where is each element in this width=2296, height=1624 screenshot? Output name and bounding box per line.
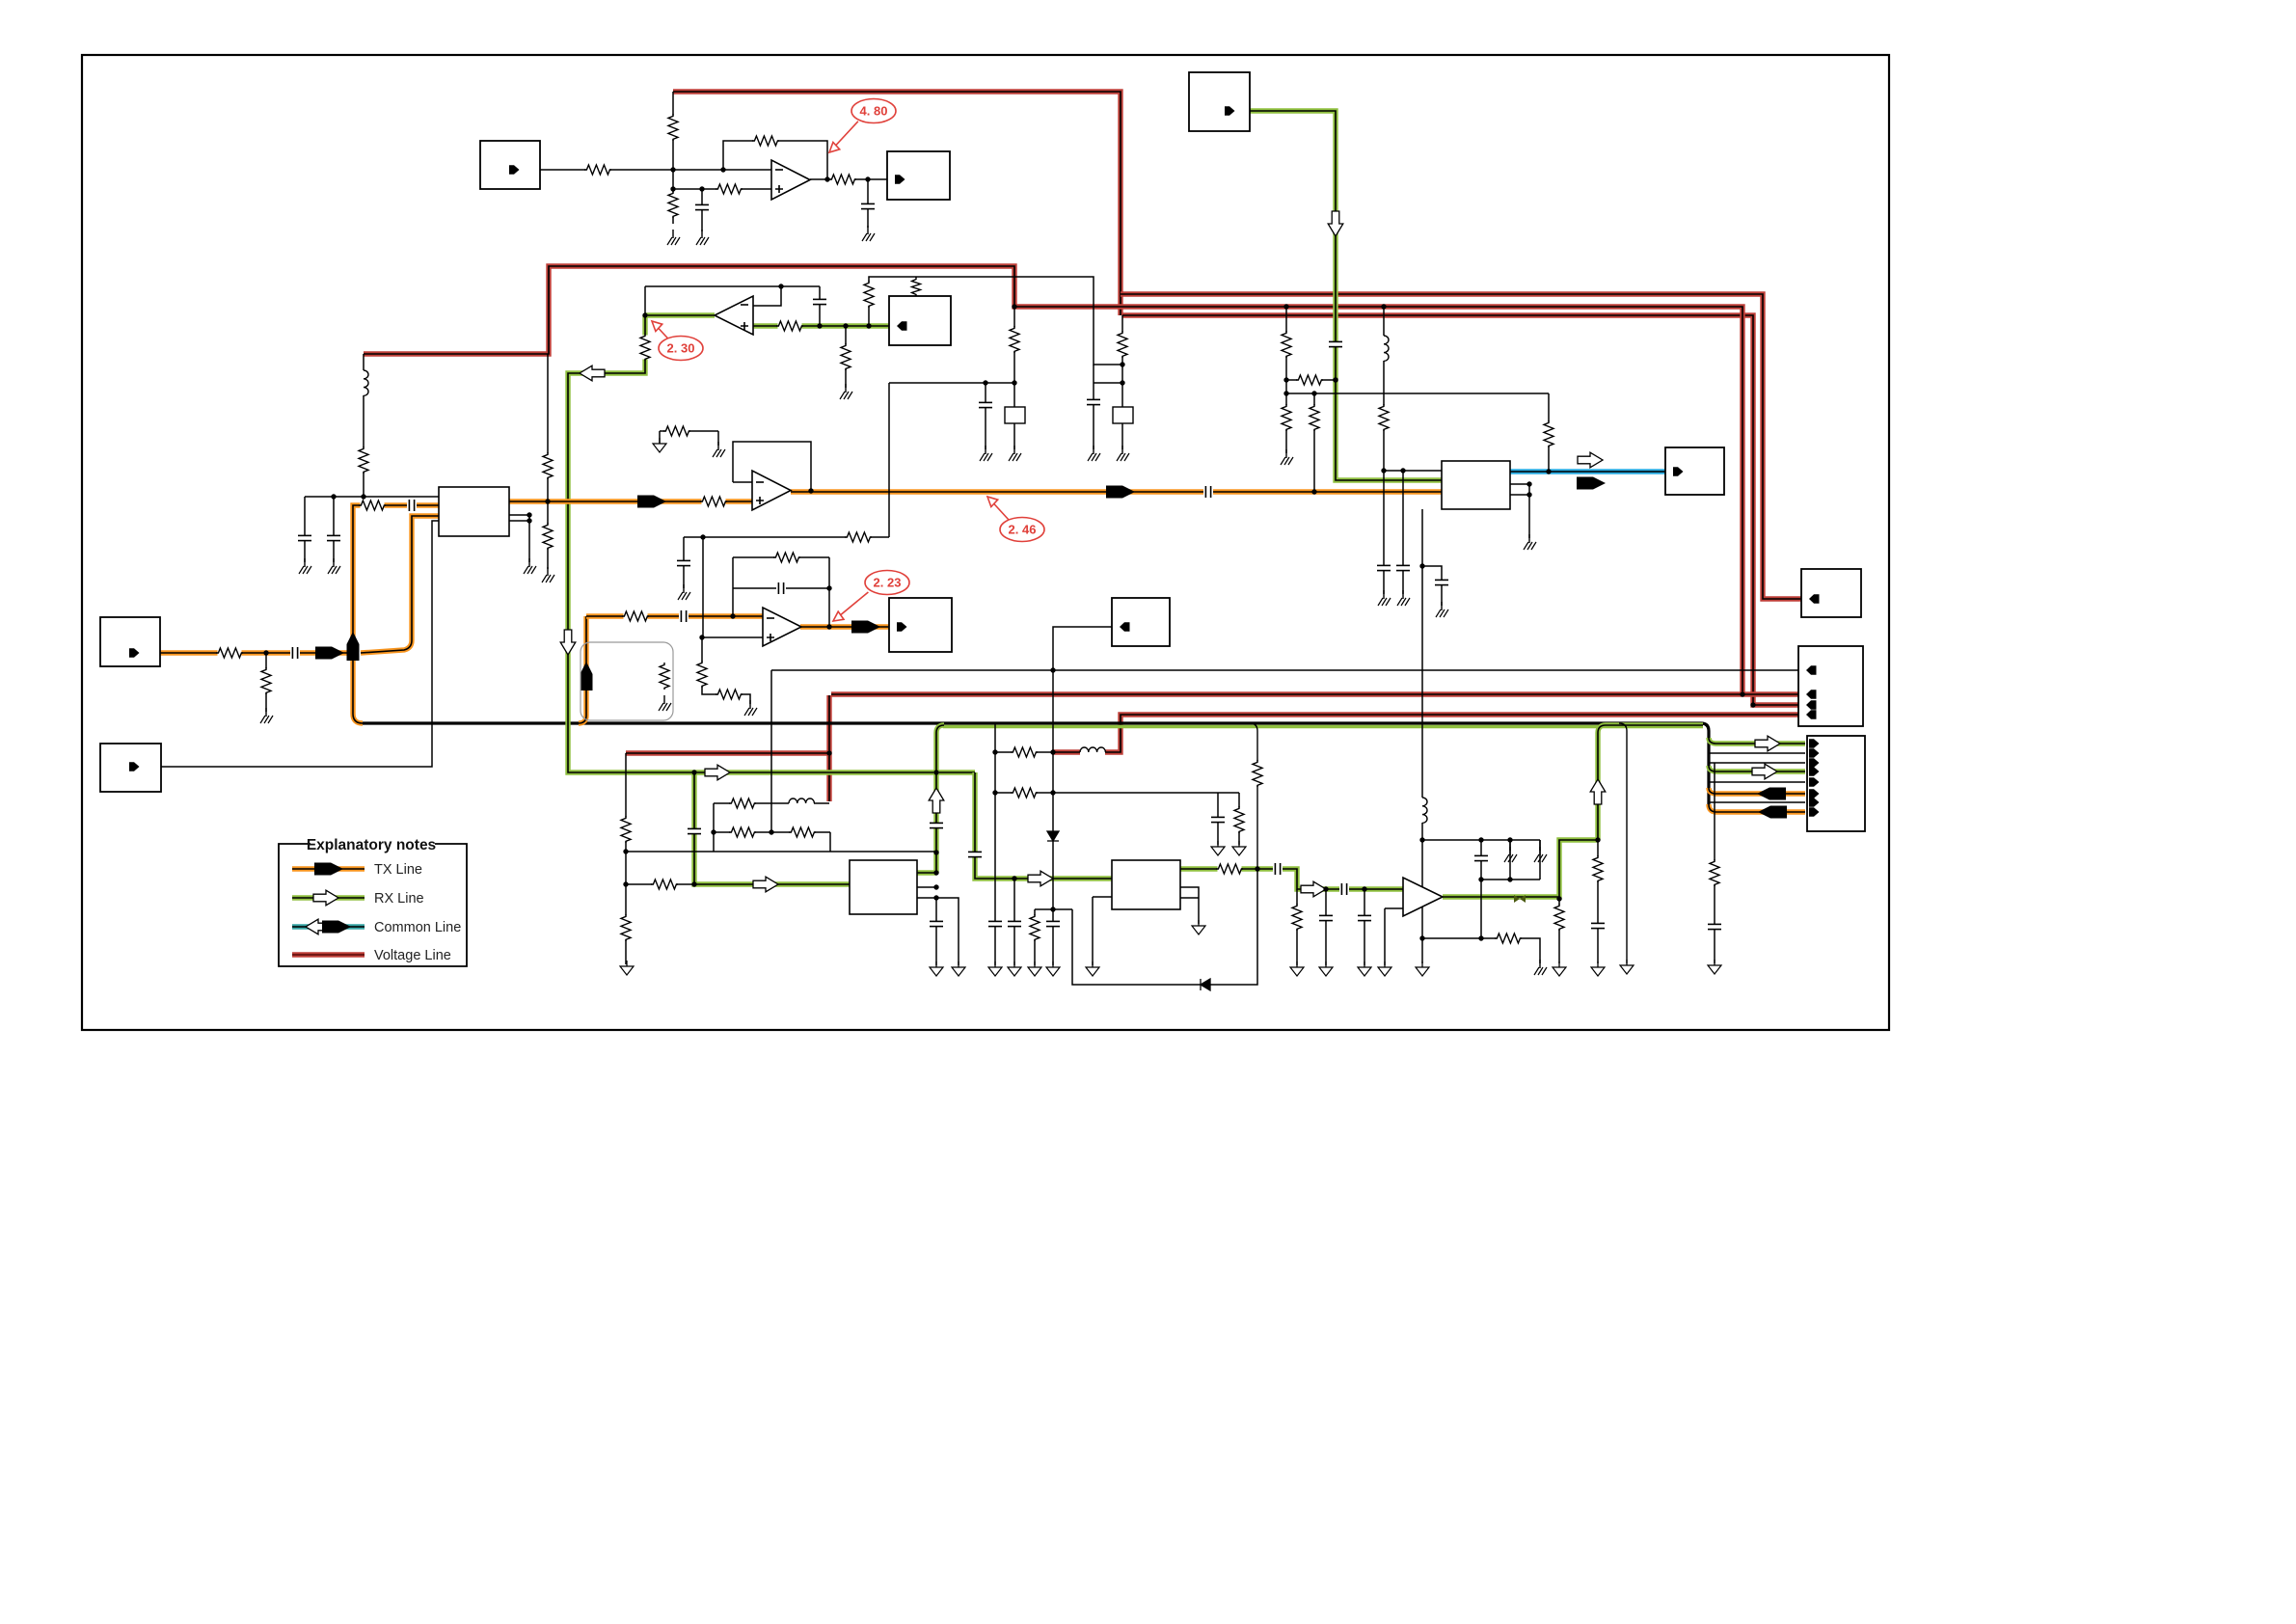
ground G5 <box>260 708 273 723</box>
wire net x1778 chain <box>1714 763 1715 963</box>
wire net mesh line2 <box>714 831 830 833</box>
wire net x1052 cap2 <box>1013 879 1015 965</box>
wire net free RC l <box>659 431 661 444</box>
wire net IC3 bottom pin <box>1421 509 1423 938</box>
ground G23 <box>659 695 671 711</box>
junction J-a <box>670 167 675 172</box>
module M1 <box>1005 407 1025 423</box>
capacitor C8 <box>326 535 341 540</box>
capacitor C21 <box>1007 921 1022 926</box>
wire voltage net V1 branch1 <box>1121 294 1801 599</box>
wire net x1263 cap <box>1217 793 1219 845</box>
ground G2 <box>696 230 709 245</box>
wire x1304 drop <box>1250 723 1257 869</box>
junction J-p <box>545 499 550 503</box>
capacitor C13 <box>1395 565 1411 570</box>
ground G39 <box>1591 961 1605 976</box>
wire TX U5 output <box>800 624 889 629</box>
wire net link r 917 <box>627 883 694 885</box>
wire net x922 drop <box>888 383 890 537</box>
junction J-i <box>778 284 783 288</box>
ground G18 <box>1397 590 1410 606</box>
junction J-e <box>824 176 829 181</box>
capacitor C2 <box>860 203 876 208</box>
arrow RX-4 <box>1301 881 1326 897</box>
resistor R23 <box>1281 404 1292 431</box>
junction J-ae <box>1381 304 1386 309</box>
wire net box4 wire <box>1053 627 1112 919</box>
capacitor C31 <box>987 921 1003 926</box>
ground G20 <box>1436 602 1448 617</box>
wire voltage net V4 horizontal <box>831 691 1798 696</box>
wire net x1436 gnd <box>1384 908 1386 965</box>
diode D1 <box>1047 831 1059 841</box>
resistor R28 <box>622 610 649 622</box>
ground G15 <box>1117 446 1129 461</box>
junction J-bw <box>992 790 997 795</box>
legend TX sample <box>292 866 365 871</box>
ground G6 <box>299 558 311 574</box>
wire net x649 chain <box>625 753 627 964</box>
junction J-aa <box>1283 377 1288 382</box>
resistor R17 <box>358 447 369 474</box>
junction J-ai <box>1526 481 1531 486</box>
ground G41 <box>1534 847 1547 862</box>
resistor R38 <box>729 826 756 838</box>
wire net y780 link <box>995 751 1052 753</box>
wire net x346 cap <box>333 497 335 562</box>
wire net x276 divider <box>265 653 267 712</box>
arrow RX-r1 <box>705 765 730 780</box>
ground G13 <box>1009 446 1021 461</box>
wire net x1435 cap <box>1383 471 1385 594</box>
wire net y488 IC3 <box>1384 470 1442 472</box>
junction J-bk <box>1323 886 1328 891</box>
ground G37 <box>1378 961 1391 976</box>
resistor R45 <box>1216 863 1243 875</box>
wire net x1032 drop <box>994 723 996 965</box>
svg-text:Voltage Line: Voltage Line <box>374 948 451 963</box>
wire net IC2 right pin2 <box>1180 897 1199 899</box>
resistor R47 <box>1553 904 1565 931</box>
wire net y822 right <box>1053 792 1239 794</box>
wire RX U4 output rise <box>1443 725 1703 897</box>
junction J-at <box>623 881 628 886</box>
junction J-o <box>361 494 365 499</box>
junction J-s <box>808 488 813 493</box>
wire RX IC2 output <box>1180 869 1403 889</box>
junction J-bf <box>1050 667 1055 672</box>
ground G27 <box>1008 961 1021 976</box>
resistor R25 <box>1309 404 1320 431</box>
connector P8 <box>1798 646 1863 726</box>
wire net x1375 cap <box>1325 889 1327 965</box>
wire net fan pin2 <box>1709 747 1805 753</box>
resistor R35 <box>620 914 632 941</box>
connector P1 <box>480 141 540 189</box>
wire TX to U5 <box>586 613 763 618</box>
wire net IC0 left pin wire <box>161 521 439 767</box>
capacitor C9 <box>1203 486 1213 498</box>
junction J-bd <box>933 895 938 900</box>
capacitor C30 <box>1707 924 1722 929</box>
wire net free RC r <box>717 431 719 446</box>
wire voltage net V1 branch3 <box>1122 315 1798 705</box>
wire TX branch up from bundle <box>579 616 586 723</box>
arrow RX-up1 <box>929 788 944 813</box>
wire net IC1 right pins <box>917 886 936 888</box>
IC IC3 <box>1442 461 1510 509</box>
wire net U2 minus <box>733 481 752 483</box>
wire net mesh2 x1536 <box>1480 840 1482 938</box>
wire net IC0 low pins <box>509 515 529 562</box>
ground G40 <box>1504 847 1517 862</box>
wire net U5 fb right <box>828 557 830 627</box>
junction J-l <box>866 323 871 328</box>
junction J-bh <box>1050 790 1055 795</box>
resistor R44 <box>1252 760 1263 787</box>
arrow RX-fan4 <box>1752 764 1777 779</box>
wire net U5 fb top <box>733 556 829 558</box>
wire TX IC0 out to U2 <box>509 499 752 503</box>
capacitor C4 <box>812 299 827 304</box>
connector P10 <box>100 744 161 792</box>
wire net x1475 gnd <box>1421 938 1423 963</box>
resistor R42 <box>1011 787 1038 798</box>
arrow RX-down2 <box>560 630 576 655</box>
resistor R26 <box>1378 404 1390 431</box>
op-amp U1 <box>771 160 810 200</box>
resistor R21 <box>1117 331 1128 358</box>
junction J-bm <box>1556 896 1561 901</box>
op-amp U2 <box>752 471 791 510</box>
wire net x1363 chain <box>1313 393 1315 492</box>
wire RX net from top connector <box>1250 111 1442 480</box>
wire net U4 lower input <box>1385 907 1403 909</box>
wire net IC3 cap branch <box>1422 566 1442 606</box>
capacitor C14 <box>1434 580 1449 584</box>
wire net x1435 chain <box>1383 307 1385 471</box>
junction J-bg <box>1050 749 1055 754</box>
capacitor C6 <box>407 500 417 511</box>
resistor R15 <box>542 452 554 479</box>
capacitor C22 <box>1045 921 1061 926</box>
junction J-u <box>983 380 987 385</box>
wire net fan pin5 <box>1709 776 1805 782</box>
wire net x709 cap <box>683 537 685 588</box>
wire TX fan pin6 <box>1709 788 1805 794</box>
junction J-j <box>817 323 822 328</box>
capacitor C16 <box>776 582 786 594</box>
wire voltage net V6 <box>626 750 829 755</box>
ground G1 <box>667 230 680 245</box>
resistor R10 <box>863 281 875 308</box>
legend box <box>279 844 467 966</box>
wire RX IC1 output rise <box>917 725 944 873</box>
junction J-ad <box>1333 377 1337 382</box>
junction J-af <box>1381 468 1386 473</box>
wire common line blue <box>1510 469 1665 474</box>
wire net IC1 right pin2 <box>917 897 936 899</box>
wire net mesh2 stub1 <box>1509 840 1511 851</box>
capacitor C20 <box>929 921 944 926</box>
wire net y695 line <box>771 669 1798 671</box>
wire net U3 feedback h <box>645 285 820 287</box>
resistor R27 <box>1543 420 1554 447</box>
junction J-bs <box>1419 837 1424 842</box>
arrow RX-r2 <box>753 877 778 892</box>
arrow legend common arrow l <box>306 919 331 934</box>
enclosure gray <box>581 642 673 720</box>
capacitor C26 <box>1339 883 1349 895</box>
ground G9 <box>542 567 554 582</box>
ground G29 <box>1046 961 1060 976</box>
label L2.46 <box>987 497 1044 542</box>
ground G45 <box>1708 960 1721 974</box>
resistor R1 <box>584 164 611 176</box>
junction J-bj <box>1255 866 1259 871</box>
junction J-bu <box>1478 935 1483 940</box>
wire net x1345 r <box>1296 889 1298 965</box>
ground G25 <box>930 961 943 976</box>
junction J-br <box>1507 877 1512 881</box>
junction J-aj <box>1526 492 1531 497</box>
diode D2 <box>1201 979 1210 990</box>
wire net x1657 rc <box>1597 840 1599 963</box>
junction J-ax <box>769 829 773 834</box>
wire x1687 drop <box>1619 723 1627 963</box>
wire voltage net V1 top <box>673 92 1121 315</box>
junction J-b <box>720 167 725 172</box>
wire net IC2 left low pin <box>1093 896 1112 898</box>
junction J-n <box>331 494 336 499</box>
svg-text:TX Line: TX Line <box>374 862 422 878</box>
wire net mesh2 top <box>1422 839 1540 841</box>
inductor L1 <box>360 370 368 395</box>
resistor R49 <box>1495 933 1522 944</box>
svg-text:4. 80: 4. 80 <box>860 104 888 119</box>
capacitor C27 <box>1357 915 1372 920</box>
ground G31 <box>1192 920 1205 934</box>
wire net x901 up <box>869 277 1122 365</box>
wire TX second IC0 pin <box>361 516 439 653</box>
junction J-al <box>1740 691 1744 696</box>
wire net x1285 r <box>1238 793 1240 845</box>
resistor R22 <box>1281 331 1292 358</box>
capacitor C28 <box>1590 923 1606 928</box>
resistor R31 <box>773 552 800 563</box>
junction J-bp <box>1507 837 1512 842</box>
wire TX rise to IC0 <box>353 505 439 653</box>
connector P9 <box>1807 736 1865 831</box>
ground G21 <box>744 700 757 716</box>
arrow TX-2 <box>637 496 666 508</box>
wire net fan pin3 <box>1709 757 1805 763</box>
junction J-au <box>691 881 696 886</box>
wire net x877 gnd <box>845 326 847 388</box>
wire net x950 stub <box>915 277 917 296</box>
connector P2 <box>887 151 950 200</box>
resistor R7 <box>639 334 651 361</box>
resistor R34 <box>620 816 632 843</box>
capacitor C15 <box>679 610 689 622</box>
connector P11 <box>889 598 952 652</box>
wire net y943 left <box>1035 908 1053 910</box>
ground G22 <box>678 584 690 600</box>
wire net U5 plus <box>702 636 763 638</box>
junction J-bo <box>1478 837 1483 842</box>
resistor R41 <box>1011 746 1038 758</box>
junction J-ab <box>1283 391 1288 395</box>
ground G8 <box>524 558 536 574</box>
wire net x1092 caps <box>1052 919 1054 965</box>
resistor R13 <box>260 667 272 694</box>
resistor R16 <box>542 523 554 550</box>
wire net x1073 r <box>1034 909 1036 965</box>
junction J-d <box>699 186 704 191</box>
capacitor C11 <box>1086 399 1101 404</box>
resistor R2 <box>667 114 679 141</box>
arrow RX-left <box>580 365 605 381</box>
junction J-bb <box>933 870 938 875</box>
junction J-q <box>527 512 531 517</box>
wire net y973 line <box>1422 938 1540 963</box>
wire RX net U3 plus input <box>753 323 889 328</box>
junction J-f <box>865 176 870 181</box>
wire net U5 plus divider <box>702 637 750 704</box>
wire net x1455 cap <box>1402 471 1404 594</box>
resistor R30 <box>716 689 743 700</box>
resistor R29 <box>696 661 708 688</box>
arrow TX-up <box>347 632 360 661</box>
arrow legend TX arrow <box>314 863 343 876</box>
wire net IC3 right pin2 <box>1510 494 1529 496</box>
junction J-ag <box>1400 468 1405 473</box>
inductor L2 <box>1380 336 1389 361</box>
capacitor C10 <box>978 402 993 407</box>
resistor R12 <box>216 647 243 659</box>
junction J-ba <box>933 850 938 854</box>
resistor R14 <box>359 500 386 511</box>
wire TX long line U2 out <box>791 489 1442 494</box>
wire net IC0 low pin2 <box>509 520 529 522</box>
ground G24 <box>620 961 634 975</box>
capacitor C1 <box>694 204 710 209</box>
junction J-bn <box>1595 837 1600 842</box>
ground G28 <box>1028 961 1041 976</box>
capacitor C17 <box>676 560 691 565</box>
ground G16 <box>1281 449 1293 465</box>
junction J-h <box>642 312 647 317</box>
junction J-bq <box>1478 877 1483 881</box>
wire bundle run <box>361 723 1709 806</box>
resistor R43 <box>1233 806 1245 833</box>
wire net x377 chain <box>363 354 365 497</box>
capacitor C7 <box>297 535 312 540</box>
ground G32 <box>1211 841 1225 855</box>
junction J-w <box>1012 304 1016 309</box>
ground G26 <box>952 961 965 976</box>
arrow TX-in <box>315 647 344 660</box>
arrow RX-fan1 <box>1755 736 1780 751</box>
junction J-ao <box>699 635 704 639</box>
ground G17 <box>1378 590 1391 606</box>
op-amp U3 <box>715 296 753 335</box>
connector P3 <box>1189 72 1250 131</box>
wire TX net from left connector <box>160 650 353 655</box>
wire net U5 feedback left <box>732 557 734 616</box>
wire RX vertical via R <box>568 315 975 772</box>
junction J-ar <box>826 585 831 590</box>
junction J-ah <box>1546 469 1551 474</box>
capacitor C3 <box>1328 341 1343 346</box>
wire net cap x728 <box>701 189 703 231</box>
wire net x1052 chain <box>1013 307 1015 449</box>
wire net y397 left <box>889 382 1014 384</box>
svg-text:2. 46: 2. 46 <box>1009 523 1037 537</box>
resistor R32 <box>845 531 872 543</box>
wire TX fan pin8 <box>1709 804 1805 812</box>
wire net 4.80 input <box>540 169 771 171</box>
ground G42 <box>1534 960 1547 975</box>
wire net res to green <box>1286 379 1336 381</box>
inductor L5 <box>1080 747 1105 756</box>
capacitor C18 <box>687 828 702 833</box>
wire net 4.80 feedback <box>723 141 827 179</box>
wire net x1022 cap <box>985 383 986 449</box>
wire RX drop to IC1 <box>694 772 850 884</box>
wire net mesh2 stub2 <box>1539 840 1541 851</box>
wire net y408 line <box>1286 392 1549 394</box>
ground G12 <box>980 446 992 461</box>
wire net mesh line1 <box>714 802 829 804</box>
wire net U2 feedback <box>733 442 811 491</box>
junction J-c <box>670 186 675 191</box>
IC IC2 <box>1112 860 1180 909</box>
connector P4 <box>889 296 951 345</box>
wire voltage net V2 <box>364 266 1742 694</box>
svg-text:Common Line: Common Line <box>374 920 461 935</box>
capacitor C5 <box>290 647 300 659</box>
wire net U5 fb cap <box>733 587 829 589</box>
label L4.80 <box>829 99 896 153</box>
resistor R18 <box>700 496 727 507</box>
junction J-ap <box>700 534 705 539</box>
wire net IC2 right pins <box>1180 887 1199 924</box>
resistor R40 <box>1029 914 1040 941</box>
ground G3 <box>862 226 875 241</box>
wire net x1415 cap <box>1364 889 1365 965</box>
capacitor C25 <box>1318 915 1334 920</box>
wire net cap x900 <box>867 179 869 228</box>
junction J-v <box>1012 380 1016 385</box>
wire net x729 drop <box>702 537 704 637</box>
ground G44 <box>1620 960 1634 974</box>
junction J-x <box>1120 362 1124 366</box>
arrow TX-3 <box>1106 486 1135 499</box>
resistor R8 <box>776 320 803 332</box>
ground G10 <box>653 438 666 452</box>
ground G33 <box>1232 841 1246 855</box>
junction J-r <box>527 518 531 523</box>
wire net 4.80 plus <box>673 188 771 190</box>
wire net 4.80 output <box>810 178 887 180</box>
wire net mesh x740 <box>713 803 715 852</box>
junction J-an <box>730 613 735 618</box>
wire voltage net V5 <box>1052 715 1798 752</box>
resistor R33 <box>659 663 670 690</box>
wire net mesh2 bottom <box>1481 879 1540 880</box>
